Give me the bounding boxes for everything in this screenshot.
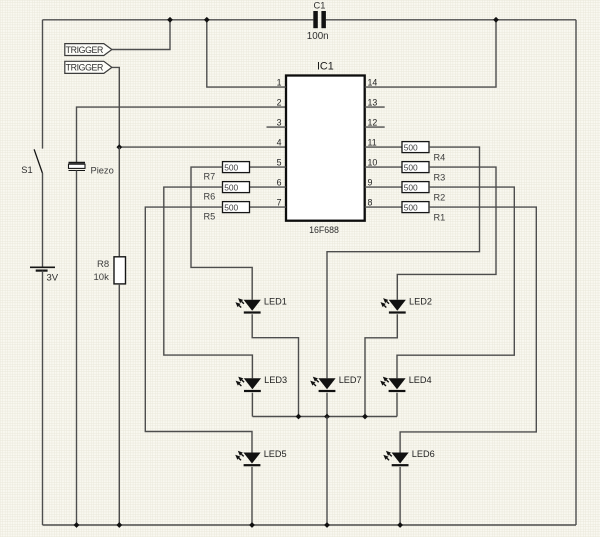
wire left rail to S1 [42,20,44,149]
wire IC pin to R2 [365,186,402,188]
svg-text:TRIGGER: TRIGGER [66,63,103,73]
capacitor C1 [313,11,318,28]
wire IC pin to R7 [250,166,287,168]
wire IC pin 3 stub [267,126,287,128]
wire node A to IC pin 4 [119,146,286,148]
svg-text:R3: R3 [434,173,446,183]
wire right border [575,20,577,525]
wire IC pin to R4 [365,146,402,148]
svg-text:LED4: LED4 [409,375,432,385]
svg-text:10: 10 [368,157,378,167]
LED LED6 [383,451,408,467]
svg-text:C1: C1 [314,1,326,11]
switch S1 blade [34,149,42,173]
wire LED7 cathode to bus [326,393,328,417]
wire LED5 cathode to bottom rail [251,467,253,525]
wire R2 to LED [397,187,514,378]
svg-text:3: 3 [277,117,282,127]
wire R5 to LED [145,207,252,452]
junction top rail / pin1 [204,17,210,23]
svg-text:S1: S1 [21,165,32,175]
resistor R3 [402,162,429,173]
svg-text:7: 7 [277,197,282,207]
svg-text:500: 500 [224,182,238,192]
wire IC pin 13 stub [365,106,385,108]
svg-text:R5: R5 [204,212,216,222]
junction bus / LED7 [324,414,330,420]
junction R8 / bottom rail [116,522,122,528]
svg-text:6: 6 [277,177,282,187]
junction top rail / pin14 [493,17,499,23]
wire bottom rail [43,524,577,526]
LED LED7 [310,377,335,393]
svg-text:8: 8 [368,197,373,207]
svg-text:R7: R7 [204,172,216,182]
wire piezo to bottom rail [76,171,78,526]
piezo transducer [69,162,86,164]
svg-text:500: 500 [404,142,418,152]
svg-text:R1: R1 [434,213,446,223]
svg-text:LED7: LED7 [339,375,362,385]
svg-text:R6: R6 [204,192,216,202]
LED LED3 [236,377,261,393]
resistor R5 [223,202,250,213]
wire bus to bottom rail [326,417,328,526]
wire LED3 cathode to bus [251,393,253,417]
svg-text:TRIGGER: TRIGGER [66,45,103,55]
net flag TRIGGER 2 [65,61,112,73]
svg-text:1: 1 [277,77,282,87]
wire IC pin 14 to top rail [365,20,496,87]
LED LED5 [235,451,260,467]
resistor R1 [402,202,429,213]
wire piezo to IC pin 2 [77,107,287,162]
svg-text:R4: R4 [434,153,446,163]
wire IC pin 12 stub [365,126,385,128]
svg-text:500: 500 [404,162,418,172]
wire R4 to LED [327,147,480,378]
svg-text:500: 500 [224,202,238,212]
wire LED6 cathode to bottom rail [399,467,401,525]
net flag TRIGGER 1 [65,44,112,56]
svg-text:Piezo: Piezo [91,165,114,175]
wire LED4 cathode to bus [396,393,398,417]
resistor R4 [402,142,429,153]
svg-text:4: 4 [277,137,282,147]
svg-text:16F688: 16F688 [309,225,339,235]
svg-text:12: 12 [368,117,378,127]
wire IC pin to R6 [250,186,287,188]
junction LED5 / bottom rail [249,522,255,528]
junction node A [116,144,122,150]
wire cathode bus [252,416,397,418]
svg-text:500: 500 [404,202,418,212]
op-amp IC1 16F688 body [286,76,365,221]
svg-text:13: 13 [368,97,378,107]
svg-text:LED1: LED1 [264,297,287,307]
wire R6 to LED [164,187,253,378]
svg-text:9: 9 [368,177,373,187]
junction bus / LED1 [296,414,302,420]
svg-text:5: 5 [277,157,282,167]
junction top rail / TRIGGER1 [167,17,173,23]
wire TRIGGER2 to node A [112,67,119,147]
svg-text:LED3: LED3 [264,375,287,385]
LED LED2 [381,298,406,314]
junction piezo / bottom rail [74,522,80,528]
LED LED1 [235,298,260,314]
resistor R2 [402,182,429,193]
resistor R6 [223,182,250,193]
wire S1 to battery [42,173,44,267]
svg-text:2: 2 [277,97,282,107]
svg-text:LED2: LED2 [409,297,432,307]
svg-text:100n: 100n [307,31,329,42]
wire top rail right of C1 [326,19,576,21]
svg-text:11: 11 [368,137,377,147]
wire LED1 cathode to bus [252,314,298,416]
svg-text:R2: R2 [434,193,446,203]
wire TRIGGER1 to top rail [112,20,170,50]
junction bus / LED2 [362,414,368,420]
svg-text:3V: 3V [47,273,59,284]
wire LED2 cathode to bus [365,314,397,416]
wire R1 to LED [400,207,536,452]
svg-text:500: 500 [224,162,238,172]
wire IC pin 1 to top rail [207,20,286,87]
wire IC pin to R3 [365,166,402,168]
wire R8 to bottom rail [118,284,120,525]
resistor R7 [223,162,250,173]
wire top rail left of C1 [43,19,314,21]
svg-text:14: 14 [368,77,378,87]
battery B1 3V [30,266,55,268]
svg-text:IC1: IC1 [317,61,334,73]
svg-text:500: 500 [404,182,418,192]
svg-text:LED6: LED6 [412,449,435,459]
wire R3 to LED [397,167,496,300]
junction LED6 / bottom rail [397,522,403,528]
junction bus wire / bottom rail [324,522,330,528]
svg-text:LED5: LED5 [264,449,287,459]
resistor R8 [114,257,126,284]
wire IC pin to R5 [250,206,287,208]
wire node A to R8 [118,147,120,257]
wire IC pin to R1 [365,206,402,208]
LED LED4 [380,377,405,393]
wire battery to bottom rail [42,271,44,525]
svg-text:R8: R8 [97,259,109,270]
wire R7 to LED [191,167,252,300]
svg-text:10k: 10k [94,272,110,283]
